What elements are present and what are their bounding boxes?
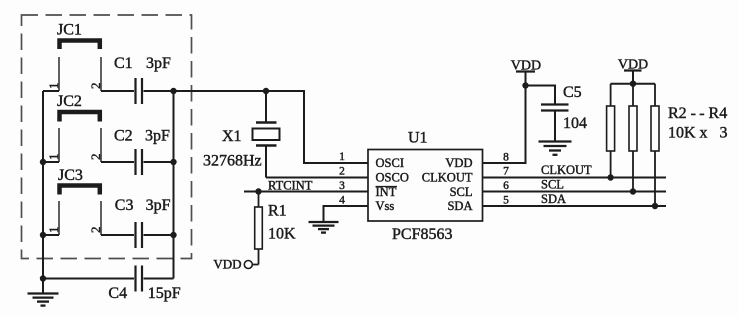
capacitor C2 [101,149,174,175]
svg-text:JC2: JC2 [57,93,82,110]
svg-text:VDD: VDD [213,257,241,272]
svg-text:VDD: VDD [445,156,472,170]
svg-text:SCL: SCL [450,185,473,199]
wire SDA net [483,205,667,207]
wire SCL net [483,191,667,193]
junction R4 to SDA [652,203,658,209]
svg-text:OSCO: OSCO [376,171,409,185]
svg-text:15pF: 15pF [148,285,181,302]
svg-text:8: 8 [503,152,509,164]
wire VDD stem right [632,71,634,84]
svg-text:3: 3 [339,180,345,192]
junction right rail row1 [170,88,176,94]
svg-text:JC3: JC3 [58,167,83,184]
jumper JC2 [59,112,101,162]
svg-text:10K x 3: 10K x 3 [668,125,728,142]
svg-text:OSCI: OSCI [376,156,404,170]
svg-text:7: 7 [503,166,509,178]
wire JC3 pin1 to left rail [43,234,59,236]
junction crystal tap [263,88,269,94]
dashed boundary box [22,15,192,259]
resistor R3 [629,84,637,192]
wire OSCO pin 2 [266,177,368,179]
wire row1 to OSCI corner [174,91,369,163]
svg-text:SDA: SDA [541,192,566,206]
wire RTCINT pin 3 [244,191,368,193]
capacitor C3 [101,222,174,248]
svg-text:2: 2 [88,227,103,234]
wire JC1 pin1 to left rail [43,90,59,92]
wire right rail [173,91,175,279]
ground at C5 [539,142,572,155]
crystal X1 [253,91,280,178]
svg-text:VDD: VDD [618,58,648,73]
junction left rail row2 [40,159,46,165]
svg-text:3pF: 3pF [146,55,171,72]
junction right rail row2 [170,159,176,165]
VDD supply symbol left [516,70,535,72]
capacitor C1 [101,78,174,104]
ground at Vss [309,222,339,233]
svg-text:1: 1 [46,227,61,234]
junction R3 to SCL [630,188,636,194]
svg-text:X1: X1 [222,128,242,145]
svg-text:10K: 10K [268,226,296,243]
svg-text:2: 2 [339,166,345,178]
junction left rail row4 [40,275,46,281]
svg-text:C3: C3 [115,197,134,214]
svg-text:6: 6 [503,180,509,192]
svg-text:4: 4 [339,195,345,207]
svg-text:SCL: SCL [541,178,564,192]
ground bottom left [28,294,59,306]
jumper JC3 [59,186,101,236]
wire VDD to C5 [526,86,556,105]
junction R2 to CLKOUT [607,174,613,180]
svg-text:R2 - - R4: R2 - - R4 [668,105,727,122]
resistor R1 [252,192,262,265]
svg-text:3pF: 3pF [145,128,170,145]
svg-text:VDD: VDD [511,59,541,74]
svg-text:1: 1 [46,83,61,90]
svg-text:CLKOUT: CLKOUT [422,171,473,185]
svg-text:C2: C2 [114,128,133,145]
svg-text:5: 5 [503,195,509,207]
resistor R4 [651,84,659,206]
junction VDD-C5 [522,82,528,88]
jumper JC1 [59,41,101,92]
svg-text:JC1: JC1 [57,22,82,39]
svg-text:1: 1 [339,151,345,163]
svg-text:3pF: 3pF [146,197,171,214]
capacitor C4 [43,266,174,292]
resistor R2 [607,84,615,178]
VDD terminal circle at R1 [244,261,252,269]
svg-text:32768Hz: 32768Hz [203,153,262,170]
svg-text:PCF8563: PCF8563 [392,226,452,243]
svg-text:Vss: Vss [376,199,395,213]
svg-text:SDA: SDA [447,199,472,213]
svg-text:104: 104 [563,115,587,132]
junction R1 top [255,188,261,194]
svg-text:CLKOUT: CLKOUT [541,163,592,177]
svg-text:2: 2 [88,154,103,161]
op-amp U1 box (IC PCF8563) [368,150,483,222]
svg-text:1: 1 [46,154,61,161]
VDD supply symbol right [624,69,642,71]
wire VDD pin 8 [483,72,526,164]
junction left rail row3 [40,232,46,238]
svg-text:RTCINT: RTCINT [268,179,313,193]
junction VDD distribution [630,81,636,87]
wire left rail [42,91,44,293]
svg-text:U1: U1 [408,130,428,147]
junction right rail row3 [170,232,176,238]
capacitor C5 [541,105,569,141]
svg-text:C4: C4 [108,285,127,302]
svg-text:R1: R1 [268,203,287,220]
svg-text:C1: C1 [114,55,133,72]
svg-text:C5: C5 [563,84,582,101]
wire JC2 pin1 to left rail [43,161,59,163]
wire Vss pin 4 to ground [324,206,369,222]
wire CLKOUT net [483,177,667,179]
wire VDD distribution bar [611,83,655,85]
svg-text:2: 2 [88,83,103,90]
